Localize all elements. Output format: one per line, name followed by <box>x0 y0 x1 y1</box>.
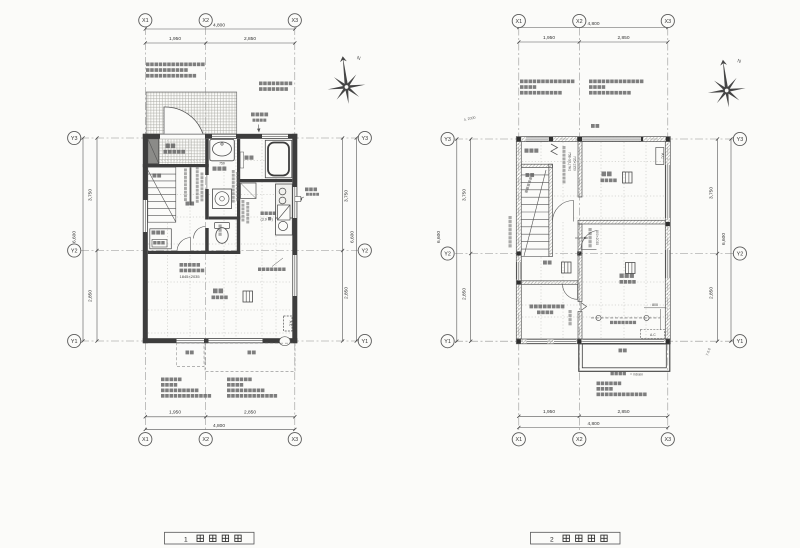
svg-text:X1: X1 <box>142 18 149 24</box>
stairs label 1F <box>153 174 162 178</box>
dim 1950/2850 top 2F <box>519 41 668 43</box>
svg-text:75B-S(L)7H1: 75B-S(L)7H1 <box>568 152 572 171</box>
note: storage interior 1F <box>259 82 292 86</box>
svg-text:1,950: 1,950 <box>169 410 181 416</box>
window left wall low 2F <box>517 262 521 280</box>
dim 6600 right 2F <box>730 139 732 341</box>
axis circles Y right 2F <box>733 132 746 145</box>
axis circles X bottom 1F <box>139 433 152 446</box>
svg-text:X2: X2 <box>576 19 583 25</box>
dim 1950/2850 top 1F <box>145 42 294 44</box>
dim 3750/2850 left 1F <box>96 138 98 341</box>
grid axes 1F <box>144 27 146 433</box>
svg-text:3,750: 3,750 <box>344 190 350 202</box>
svg-text:6,600: 6,600 <box>436 231 442 243</box>
svg-text:X3: X3 <box>292 18 299 24</box>
svg-text:4,800: 4,800 <box>587 21 599 27</box>
svg-text:3,750: 3,750 <box>88 189 94 201</box>
bedroom divider wall horiz 2F <box>578 220 665 224</box>
storage label 2F <box>530 305 565 309</box>
shoe closet shaded 1F <box>148 139 159 164</box>
svg-text:1: 1 <box>184 536 188 543</box>
closet door fold 2F <box>551 144 558 155</box>
corridor label 2F <box>543 261 552 265</box>
closet label 2F <box>525 149 539 153</box>
vent fan pipe note 1F <box>305 188 317 192</box>
window bath top 1F <box>262 134 288 138</box>
svg-text:4,800: 4,800 <box>587 421 599 427</box>
window kitchen right wall 1F <box>293 187 297 218</box>
bedroom 6.7 label 2F <box>620 274 634 278</box>
kitchen counter 1F <box>276 184 293 222</box>
stairs 2F <box>521 168 549 257</box>
genkan label 1F <box>166 144 176 149</box>
axis circles X top 2F <box>512 14 525 27</box>
svg-text:Y3: Y3 <box>71 136 78 142</box>
svg-text:735×1350: 735×1350 <box>573 156 577 171</box>
handrail note 2F <box>611 372 626 376</box>
title box 2F <box>531 532 621 544</box>
exterior walls 2F <box>516 137 670 142</box>
bathtub 1F <box>265 140 292 178</box>
svg-text:2,850: 2,850 <box>244 410 256 416</box>
exterior walls 1F <box>143 134 297 139</box>
window right bedroom6 2F <box>666 250 670 278</box>
window spec note bottom-left 1F <box>161 378 182 382</box>
svg-text:2,850: 2,850 <box>344 287 350 299</box>
svg-text:2,850: 2,850 <box>244 36 256 42</box>
door arc bedroom6 2F <box>581 231 597 250</box>
yaana label top 2F <box>591 124 599 128</box>
sliding door note 1F <box>180 263 201 267</box>
svg-text:6,600: 6,600 <box>350 231 356 243</box>
washbasin 1F <box>210 139 235 161</box>
genkan interior tile hatch 1F <box>159 139 205 164</box>
dim 4800 bottom 2F <box>519 427 668 429</box>
interior wall corridor/toilet vertical 1F <box>205 228 209 254</box>
svg-text:Y3: Y3 <box>737 137 744 143</box>
dim 6600 left 1F <box>82 138 84 341</box>
balcony 2F <box>579 344 670 372</box>
svg-text:1,950: 1,950 <box>169 36 181 42</box>
window spec note bottom-right 1F <box>227 378 252 382</box>
living room label 1F <box>213 289 223 294</box>
svg-text:X1: X1 <box>516 19 523 25</box>
tatami mark bedroom6 2F <box>626 263 636 274</box>
dim 6600 left 2F <box>456 139 458 341</box>
window living right wall 1F <box>293 255 297 296</box>
svg-text:3,750: 3,750 <box>709 187 715 199</box>
storage door arc 2F <box>563 284 578 299</box>
svg-text:2: 2 <box>550 536 554 543</box>
svg-text:Y3: Y3 <box>444 137 451 143</box>
window right bedroom9 2F <box>666 165 670 218</box>
toilet label 1F <box>219 225 222 236</box>
svg-text:X2: X2 <box>202 18 209 24</box>
svg-text:6,600: 6,600 <box>72 231 78 243</box>
svg-text:X1: X1 <box>516 437 523 443</box>
window stairs left wall 1F <box>143 200 147 232</box>
kitchen drainer 1F <box>278 205 291 220</box>
stairs right wall 2F <box>549 164 553 256</box>
interior wall washroom/toilet 1F <box>209 217 241 220</box>
closet bottom wall 2F <box>521 164 552 167</box>
dashed deck outline left 1F <box>177 343 205 367</box>
svg-text:X1: X1 <box>142 437 149 443</box>
svg-text:X3: X3 <box>292 437 299 443</box>
stairs 1F <box>148 167 176 222</box>
grid axes 2F <box>518 28 520 433</box>
kitchen sink 1F <box>276 218 293 235</box>
module dotted grid 2F <box>522 142 665 338</box>
dashed deck outline right 1F <box>205 343 295 372</box>
svg-text:1845×2035: 1845×2035 <box>180 274 201 279</box>
svg-text:Y2: Y2 <box>444 251 451 257</box>
note window spec top-right 2F <box>589 80 643 84</box>
inspection hatch label 1F <box>152 240 167 248</box>
room hanger 2F <box>591 317 660 319</box>
svg-text:2,850: 2,850 <box>617 35 629 41</box>
dim 3750/2850 left 2F <box>470 139 472 341</box>
svg-text:Y1: Y1 <box>737 339 744 345</box>
yaana label left 1F <box>186 351 194 355</box>
interior door arc genkan 1F <box>177 238 191 251</box>
sliding door living bottom 1F <box>209 339 263 343</box>
svg-text:2,850: 2,850 <box>617 409 629 415</box>
svg-text:1,950: 1,950 <box>543 409 555 415</box>
corner posts 2F <box>517 137 521 141</box>
svg-text:6,600: 6,600 <box>721 233 727 245</box>
kitchen label 1F <box>261 212 276 216</box>
corridor label 1F <box>186 202 195 206</box>
AC unit top right 2F <box>656 148 664 165</box>
svg-text:4,800: 4,800 <box>213 23 225 29</box>
dim 1950/2850 bottom 1F <box>145 416 294 418</box>
closet label 1F <box>150 229 172 249</box>
svg-text:Y3: Y3 <box>362 136 369 142</box>
dim 3750/2850 right 2F <box>717 139 719 341</box>
svg-text:2,850: 2,850 <box>88 290 94 302</box>
svg-text:(3.9: (3.9 <box>261 218 267 222</box>
washroom door 1F <box>206 175 208 189</box>
svg-text:= //drain: = //drain <box>630 372 643 376</box>
dim 800 hanger 2F <box>644 307 666 309</box>
entrance opening 1F <box>160 134 205 139</box>
stair handrail wall 1F <box>190 167 192 205</box>
svg-text:750: 750 <box>219 162 225 166</box>
svg-text:A.C: A.C <box>661 153 665 159</box>
axis circles Y left 1F <box>68 131 81 144</box>
yaana label right 1F <box>248 351 256 355</box>
compass rose 2F <box>704 57 748 109</box>
window bottom mid 2F <box>554 339 576 343</box>
washroom label 1F <box>213 167 227 171</box>
tatami mark bedroom9 2F <box>623 172 633 183</box>
dim 4800 top 1F <box>145 28 294 30</box>
vert note stair door 2F <box>569 310 572 325</box>
module dotted grid 1F <box>148 140 292 338</box>
vert note room window 2F <box>563 146 566 183</box>
note: kanki-sen ceiling fan <box>251 113 268 117</box>
axis circles X top 1F <box>139 14 152 27</box>
svg-text:Y2: Y2 <box>362 248 369 254</box>
fridge 1F <box>241 183 257 199</box>
dim 4800 bottom 1F <box>145 428 294 430</box>
stairs label 2F <box>526 173 535 177</box>
vent oval bottom right 1F <box>279 337 290 346</box>
axis circles X bottom 2F <box>512 433 525 446</box>
svg-text:2,850: 2,850 <box>462 288 468 300</box>
toilet 1F <box>215 223 230 229</box>
svg-text:3,750: 3,750 <box>462 189 468 201</box>
compass rose 1F <box>324 54 368 106</box>
svg-text:4,800: 4,800 <box>213 423 225 429</box>
svg-text:X3: X3 <box>665 19 672 25</box>
window top bedroom 2F <box>582 137 641 141</box>
tatami mark corridor 2F <box>562 262 572 273</box>
svg-text:A.C: A.C <box>650 333 656 337</box>
dim 3750/2850 right 1F <box>342 138 344 341</box>
door arc to bedroom9 2F <box>553 201 574 222</box>
svg-text:1,950: 1,950 <box>543 35 555 41</box>
kitchen panel note 1F <box>258 268 286 272</box>
washing machine 1F <box>213 189 232 209</box>
svg-text:Y1: Y1 <box>444 339 451 345</box>
svg-text:Y2: Y2 <box>737 251 744 257</box>
balcony door spec note 2F <box>597 382 622 386</box>
dim 4800 top 2F <box>519 27 668 29</box>
svg-text:X3: X3 <box>665 437 672 443</box>
axis circles Y left 2F <box>441 132 454 145</box>
window living bottom-left 1F <box>177 339 205 343</box>
vert note door 2F <box>589 228 592 247</box>
svg-text:Y1: Y1 <box>362 339 369 345</box>
interior window partition 2F <box>578 142 582 197</box>
corridor vertical notes 1F <box>184 169 187 202</box>
corridor/storage wall 2F <box>521 281 578 285</box>
AC dashed 2F <box>641 330 665 339</box>
toilet right wall 1F <box>237 220 240 255</box>
svg-text:2,850: 2,850 <box>709 287 715 299</box>
svg-text:A.C: A.C <box>289 321 293 327</box>
interior wall genkan bottom 1F <box>143 164 209 167</box>
dim 1950/2850 bottom 2F <box>519 415 668 417</box>
title box 1F <box>165 532 255 544</box>
axis circles Y right 1F <box>358 131 371 144</box>
svg-text:800×2035: 800×2035 <box>595 230 599 245</box>
AC unit 1F <box>284 316 293 331</box>
window top closet 2F <box>526 137 548 141</box>
note window spec top-left 2F <box>520 80 574 84</box>
svg-text:X2: X2 <box>202 437 209 443</box>
toilet door arc 1F <box>194 227 206 239</box>
dim 6600 right 1F <box>355 138 357 341</box>
interior wall washroom/kitchen vertical 1F <box>237 182 240 219</box>
svg-text:X2: X2 <box>576 437 583 443</box>
svg-text:800: 800 <box>652 303 658 307</box>
tatami mark living 1F <box>243 291 253 302</box>
bath label 1F <box>245 156 254 160</box>
svg-text:Y1: Y1 <box>71 339 78 345</box>
note: entrance door spec 1F <box>146 63 205 67</box>
balcony door band 2F <box>583 339 665 343</box>
vert note window left outside 2F <box>509 216 512 247</box>
bedroom 9.9 label 2F <box>602 172 612 177</box>
interior wall genkan/washroom vertical X2 1F <box>205 139 209 175</box>
window bottom-left 2F <box>527 339 547 343</box>
svg-text:Y2: Y2 <box>71 248 78 254</box>
central vertical wall 2F <box>578 224 582 302</box>
bath door 1F <box>240 152 243 168</box>
yaana label balcony 2F <box>619 349 627 353</box>
interior wall stairs/closet bottom 1F <box>148 251 240 254</box>
interior wall washroom/bath vertical 1F <box>237 139 240 182</box>
window washroom top 1F <box>212 134 236 138</box>
entrance door swing 1F <box>164 107 203 136</box>
door triangle storage 2F <box>581 303 587 311</box>
washer spec note 1F <box>232 170 235 203</box>
svg-text:): ) <box>272 218 273 222</box>
interior wall bath bottom / kitchen top 1F <box>237 179 292 182</box>
divider door arrow 2F <box>575 237 588 239</box>
